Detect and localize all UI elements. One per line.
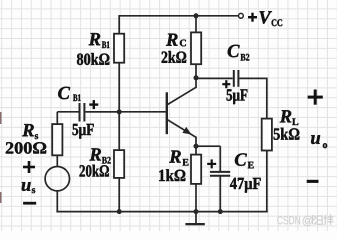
wire CE bottom xyxy=(219,176,221,212)
capacitor CB2 xyxy=(222,70,238,88)
wire CE top xyxy=(219,146,221,172)
value 200 ohm xyxy=(6,142,46,154)
wire CB1 to base xyxy=(85,111,119,113)
junction dot base node xyxy=(117,109,122,114)
value 47uF xyxy=(230,178,261,193)
label CB2 xyxy=(228,45,250,61)
label us xyxy=(22,182,36,193)
label RB1 xyxy=(89,33,110,48)
junction dot CE ground xyxy=(218,209,223,214)
wire Rs to source xyxy=(56,155,58,167)
edge mark upper xyxy=(0,112,2,124)
transistor Q1 xyxy=(167,78,196,146)
wire collector to CB2 xyxy=(196,77,233,79)
ground xyxy=(185,212,204,226)
value 2k ohm xyxy=(162,51,187,63)
wire RB1 bottom xyxy=(118,63,120,113)
label output minus xyxy=(307,180,319,183)
label CB1 xyxy=(58,87,80,101)
wire RC bottom xyxy=(195,64,197,78)
label uo xyxy=(311,135,327,148)
label RC xyxy=(166,34,186,47)
watermark CSDN xyxy=(277,214,333,226)
junction dot collector node xyxy=(194,75,199,80)
value 80k ohm xyxy=(77,53,109,65)
value 1k ohm xyxy=(159,169,185,181)
capacitor CE xyxy=(207,159,230,175)
value 20k ohm xyxy=(80,165,109,177)
label Rs xyxy=(22,124,38,139)
wire RL bottom xyxy=(266,151,268,213)
label input plus xyxy=(23,161,35,173)
junction dot RE ground xyxy=(194,209,199,214)
wire RB1 top xyxy=(118,15,120,35)
wire CB2 to RL xyxy=(239,78,266,119)
label RB2 xyxy=(89,148,110,163)
capacitor CB1 xyxy=(80,100,99,121)
wire emitter to CE xyxy=(196,145,220,147)
label CE xyxy=(235,153,254,168)
resistor RC xyxy=(191,32,201,64)
resistor RL xyxy=(262,119,272,151)
label input minus xyxy=(23,202,36,205)
junction dot top rail xyxy=(194,13,199,18)
value 5uF input xyxy=(73,124,94,139)
terminal +Vcc open circle xyxy=(239,13,244,18)
label +Vcc xyxy=(248,11,282,26)
wire input to CB1 xyxy=(57,111,79,113)
edge mark lower xyxy=(0,192,2,203)
wire RC top xyxy=(195,15,197,33)
label output plus xyxy=(308,90,323,105)
wire RE top xyxy=(195,146,197,155)
source us circle xyxy=(45,167,69,191)
resistor RB2 xyxy=(114,150,124,178)
wire source bottom xyxy=(56,191,58,213)
label RE xyxy=(169,151,188,166)
junction dot emitter node xyxy=(194,144,199,149)
wire bottom rail xyxy=(56,211,267,213)
junction dot RB2 ground xyxy=(117,209,122,214)
wire base xyxy=(85,111,165,113)
wire RB2 bottom xyxy=(118,178,120,212)
resistor RE xyxy=(191,155,201,184)
wire top rail xyxy=(119,15,238,17)
value 5uF xyxy=(227,89,248,104)
label RL xyxy=(280,110,299,125)
wire Rs top xyxy=(56,112,58,125)
resistor Rs xyxy=(52,124,62,155)
wire RB2 top xyxy=(118,112,120,151)
wire RE bottom xyxy=(195,184,197,212)
value 5k ohm xyxy=(274,128,300,140)
resistor RB1 xyxy=(114,34,124,63)
